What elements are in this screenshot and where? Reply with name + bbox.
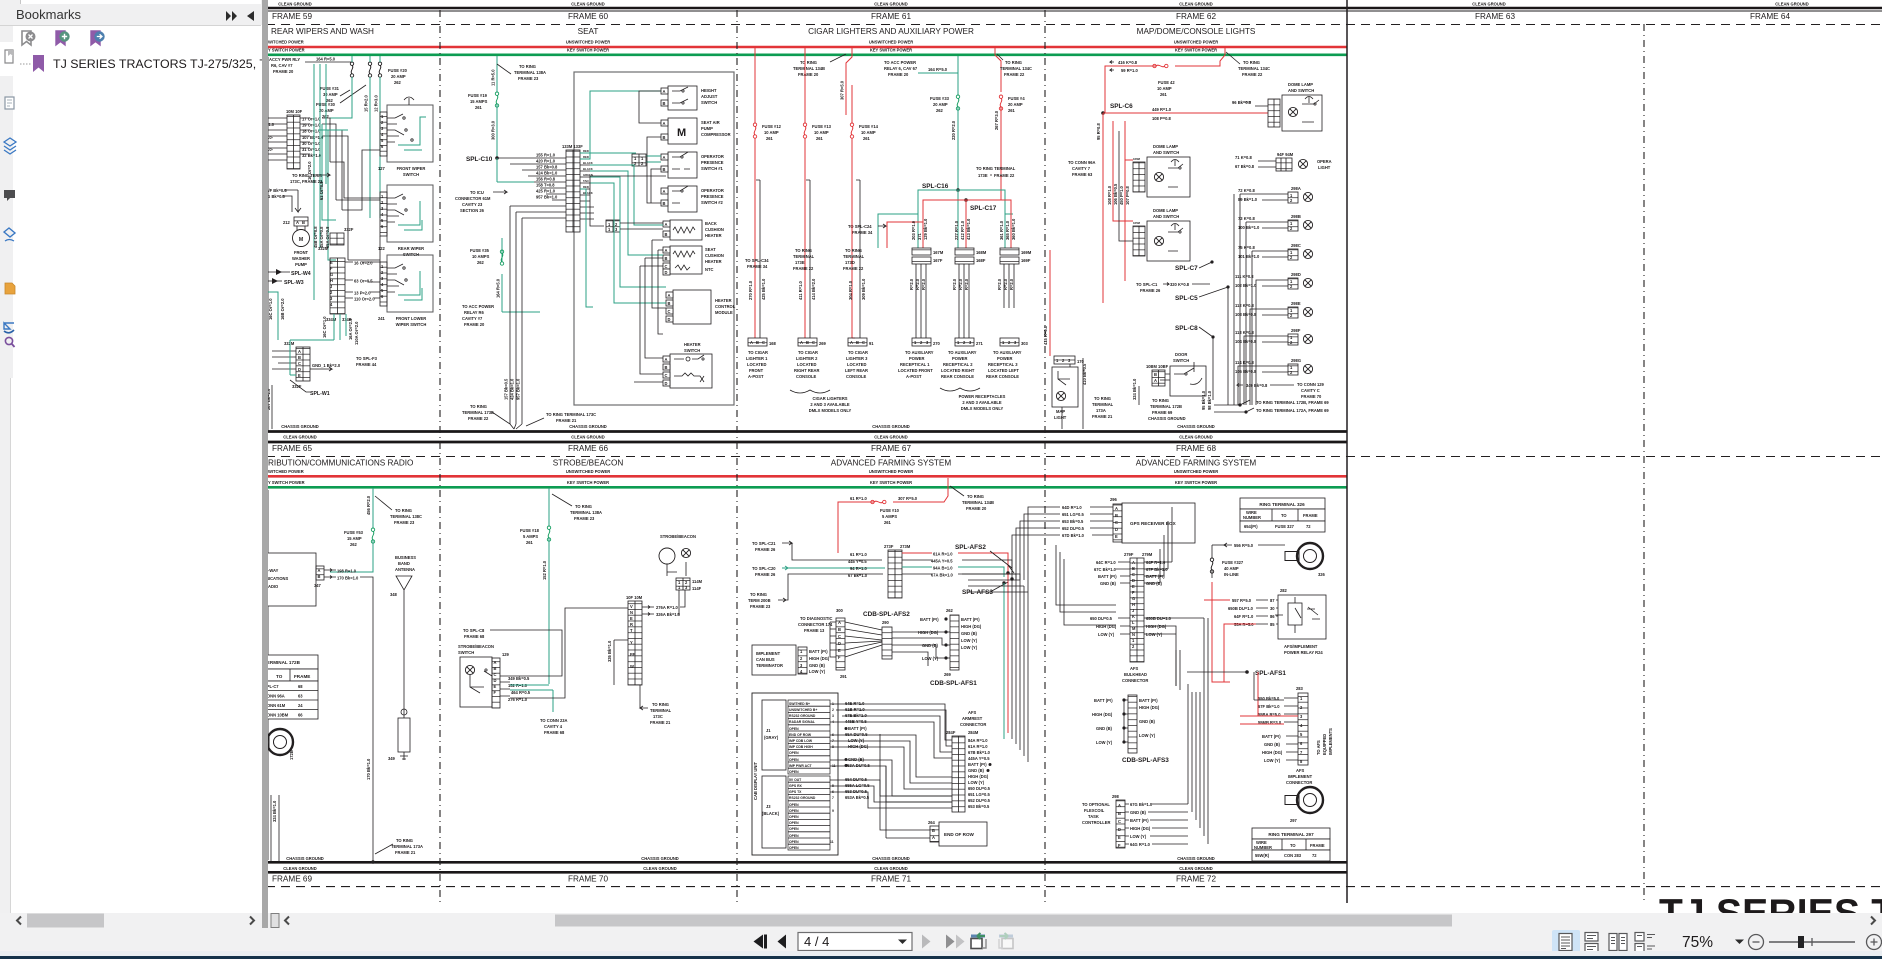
svg-text:652 DU=0.5: 652 DU=0.5 [968,798,991,803]
svg-text:RECEPTICAL 2: RECEPTICAL 2 [943,362,973,367]
svg-text:FRAME 21: FRAME 21 [556,418,577,423]
svg-text:R=2.0: R=2.0 [952,278,957,290]
wires out of 334F [345,262,353,298]
svg-text:957 Bk=1.0: 957 Bk=1.0 [536,195,558,200]
SPL-W1 [290,380,310,392]
svg-text:67G Bk=1.0: 67G Bk=1.0 [1130,802,1153,807]
svg-text:129 Bk=1.0: 129 Bk=1.0 [923,218,928,240]
svg-text:BUSINESS: BUSINESS [395,555,416,560]
svg-text:TO ICU: TO ICU [470,190,484,195]
svg-text:FUSE #13: FUSE #13 [812,124,832,129]
svg-text:R=2.0: R=2.0 [1009,278,1014,290]
svg-text:RIGHT REAR: RIGHT REAR [794,368,820,373]
svg-text:9: 9 [832,809,834,813]
svg-text:RS232 GROUND: RS232 GROUND [789,796,816,800]
svg-text:32 Bk=1.0: 32 Bk=1.0 [302,153,322,158]
svg-text:LOCATED: LOCATED [797,362,817,367]
svg-text:456 R=2.0: 456 R=2.0 [366,495,371,515]
chassis ground bus row 1 [266,430,1347,433]
red feed to dome lamp 1 [1103,112,1268,114]
vertical frame border 60/61 [736,10,738,903]
ground drop wires [510,206,566,424]
svg-text:C: C [298,361,301,366]
bookmark tree item [20,55,44,72]
svg-text:-WAY: -WAY [268,568,279,573]
svg-text:RED: RED [583,155,589,159]
svg-text:TERMINAL 172B: TERMINAL 172B [1150,404,1182,409]
front wiper switch U127 [387,105,433,162]
svg-text:LOW (Y): LOW (Y) [1264,758,1281,763]
svg-text:RELAY 6, CAV 67: RELAY 6, CAV 67 [884,66,918,71]
svg-text:A-POST: A-POST [906,374,922,379]
svg-text:FUSE #327: FUSE #327 [1222,560,1244,565]
svg-text:TO RING TERMINAL 172B, FRAME 6: TO RING TERMINAL 172B, FRAME 69 [1256,400,1329,405]
svg-text:D: D [665,381,668,386]
svg-text:10 AMP: 10 AMP [1157,86,1172,91]
svg-text:86: 86 [1270,614,1275,619]
svg-text:FRAME 23: FRAME 23 [394,520,415,525]
svg-text:170: 170 [1077,359,1085,364]
svg-text:133M 133F: 133M 133F [562,144,583,149]
clean ground bus row 2 bottom [266,871,1347,874]
svg-text:POWER: POWER [997,356,1013,361]
svg-text:167M: 167M [933,250,944,255]
svg-text:TO AFS: TO AFS [1316,740,1321,755]
svg-text:G: G [1132,596,1135,601]
FRAME59 [266,56,433,429]
svg-text:SPL-C17: SPL-C17 [970,205,997,212]
svg-text:ADIO: ADIO [268,584,279,589]
svg-text:KEY SWITCH POWER: KEY SWITCH POWER [870,48,912,53]
svg-text:A: A [494,660,497,665]
wire 164 R=5.0 [305,61,352,63]
ground drop wire 267 [271,385,273,429]
svg-text:365 R=1.0: 365 R=1.0 [1005,220,1010,240]
svg-text:284M: 284M [968,730,979,735]
svg-text:7: 7 [832,796,834,800]
svg-text:304 R=1.0: 304 R=1.0 [848,280,853,300]
svg-text:15 AMP: 15 AMP [347,536,362,541]
svg-text:64F R=1.0: 64F R=1.0 [1234,614,1254,619]
svg-text:CAVITY 7: CAVITY 7 [1072,166,1091,171]
svg-text:FRAME 23: FRAME 23 [750,604,771,609]
cigar lighter drops [755,138,855,338]
svg-text:B: B [318,574,321,579]
svg-text:CHASSIS GROUND: CHASSIS GROUND [1148,416,1186,421]
svg-text:BAND: BAND [398,561,410,566]
green supply drops left column [314,64,326,300]
svg-text:FRAME 22: FRAME 22 [1004,72,1025,77]
svg-text:FUSE 42: FUSE 42 [1158,80,1175,85]
svg-text:FRAME 59: FRAME 59 [272,12,312,21]
cigar lighter connector 269 [798,338,817,346]
svg-text:107 P=0.8: 107 P=0.8 [1125,185,1130,205]
svg-text:LOW (Y): LOW (Y) [1096,740,1113,745]
svg-text:413 Bk=1.0: 413 Bk=1.0 [966,218,971,240]
unswitched power red bus row 1 [266,46,1347,49]
svg-text:BATT (P!): BATT (P!) [848,726,867,731]
heater control module [673,290,711,324]
svg-text:LOW (Y): LOW (Y) [961,638,978,643]
svg-text:114F: 114F [692,586,702,591]
svg-text:326: 326 [1318,572,1326,577]
svg-text:425 Bk=1.0: 425 Bk=1.0 [761,278,766,300]
svg-text:(BLACK): (BLACK) [762,811,780,816]
svg-text:TO CONN 129: TO CONN 129 [1297,382,1324,387]
svg-text:262: 262 [936,108,944,113]
svg-text:HEATER: HEATER [705,259,722,264]
wires SPL-C10 to 133M [497,158,566,200]
lower switch contacts [387,264,404,292]
svg-text:SPL-C8: SPL-C8 [1175,325,1198,332]
bottom ground runs to right frames [1062,386,1139,429]
svg-text:LOW (Y): LOW (Y) [848,738,865,743]
svg-text:AND SWITCH: AND SWITCH [1153,150,1179,155]
svg-text:15 R=2.0: 15 R=2.0 [364,95,369,112]
svg-text:55W(R): 55W(R) [1255,853,1270,858]
svg-text:FUSE #12: FUSE #12 [762,124,782,129]
svg-text:SWITCH: SWITCH [403,172,419,177]
svg-text:Y SWITCH POWER: Y SWITCH POWER [268,48,305,53]
svg-text:CONNECTOR: CONNECTOR [1122,678,1148,683]
svg-text:RELAY R6: RELAY R6 [464,310,485,315]
svg-text:TO: TO [1281,513,1287,518]
connector 334M 334F [330,258,345,314]
svg-text:B: B [663,135,666,140]
destinations tab icon [4,323,14,329]
svg-text:HIGH (DG): HIGH (DG) [809,656,830,661]
svg-text:65A DU=0.5: 65A DU=0.5 [845,732,868,737]
svg-text:261: 261 [1160,92,1168,97]
svg-text:64G R=1.0: 64G R=1.0 [1130,842,1151,847]
svg-text:CONSOLE: CONSOLE [796,374,817,379]
svg-text:96 Bk=0.8: 96 Bk=0.8 [1232,100,1252,105]
svg-text:IMPLEMENT: IMPLEMENT [756,651,781,656]
svg-text:B: B [663,101,666,106]
svg-text:106 Bk=0.5: 106 Bk=0.5 [1113,183,1118,205]
svg-text:4 / 4: 4 / 4 [804,934,829,949]
svg-text:R=2.0: R=2.0 [1003,278,1008,290]
svg-text:72: 72 [1306,524,1311,529]
svg-text:LOCATED RIGHT: LOCATED RIGHT [941,368,975,373]
svg-text:FRAME 70: FRAME 70 [1301,394,1322,399]
svg-text:FRAME 68: FRAME 68 [1176,444,1216,453]
green acc power feed [918,72,958,74]
svg-text:ADVANCED FARMING SYSTEM: ADVANCED FARMING SYSTEM [1136,459,1257,468]
svg-text:B: B [665,256,668,261]
svg-text:CONNECTOR 61M: CONNECTOR 61M [455,196,491,201]
svg-text:TO AUXILIARY: TO AUXILIARY [905,350,934,355]
svg-text:MAP/DOME/CONSOLE LIGHTS: MAP/DOME/CONSOLE LIGHTS [1137,27,1256,36]
svg-text:W: W [630,664,634,669]
svg-text:212: 212 [283,220,291,225]
svg-text:262: 262 [477,260,485,265]
svg-text:CAVITY #7: CAVITY #7 [462,316,483,321]
svg-text:J: J [330,284,332,289]
continuous mode [1585,933,1598,953]
svg-text:2 AND 3 AVAILABLE: 2 AND 3 AVAILABLE [810,402,850,407]
svg-text:3: 3 [832,714,834,718]
svg-text:A: A [750,340,753,345]
svg-text:L/F Bk=0.8: L/F Bk=0.8 [266,188,287,193]
red feed with fuse 10 [893,478,948,502]
svg-text:CLEAN GROUND: CLEAN GROUND [874,435,907,440]
svg-text:411 R=1.0: 411 R=1.0 [798,280,803,300]
svg-text:71 K=0.8: 71 K=0.8 [1235,155,1252,160]
svg-text:IMP PWR ACT: IMP PWR ACT [789,764,813,768]
svg-text:CIGAR LIGHTERS: CIGAR LIGHTERS [812,396,847,401]
svg-text:FRONT: FRONT [294,250,309,255]
J3 pin cells [788,776,834,850]
svg-text:20 AMP: 20 AMP [391,74,406,79]
svg-text:GPS RX: GPS RX [789,784,803,788]
svg-text:IN-LINE: IN-LINE [1224,572,1239,577]
svg-text:R6, CAV #7: R6, CAV #7 [271,63,293,68]
antenna loading coil [398,718,410,752]
long bundle down [1007,573,1009,733]
svg-text:TO ACC POWER: TO ACC POWER [462,304,494,309]
svg-text:A: A [665,248,668,253]
svg-text:FRAME: FRAME [1303,513,1318,518]
separator [262,0,268,928]
continuous facing mode [1635,933,1655,953]
svg-text:HIGH (DG): HIGH (DG) [918,630,939,635]
FRAME65 [255,488,423,864]
red tap to ring terminal 134B [846,47,852,115]
first page button [754,935,764,949]
svg-text:267 R=3.0: 267 R=3.0 [994,110,999,130]
svg-text:FRAME 70: FRAME 70 [568,875,608,884]
svg-text:112 K=0.8: 112 K=0.8 [1235,303,1255,308]
svg-text:957 Bk=1.0: 957 Bk=1.0 [516,378,521,400]
svg-text:279M: 279M [1142,552,1153,557]
svg-text:31 Or=1.0: 31 Or=1.0 [302,147,321,152]
svg-text:652 DU=0.5: 652 DU=0.5 [1062,526,1085,531]
previous view button [971,933,986,949]
svg-text:D: D [298,367,301,372]
svg-text:FRAME 44: FRAME 44 [356,362,377,367]
svg-text:KEY SWITCH POWER: KEY SWITCH POWER [567,480,609,485]
svg-text:CLEAN GROUND: CLEAN GROUND [1179,435,1212,440]
svg-text:CDB-SPL-AFS3: CDB-SPL-AFS3 [1122,757,1169,764]
svg-text:TO CIGAR: TO CIGAR [748,350,768,355]
cigar lighter connector 168 [748,338,767,346]
page cut left edge line [267,57,269,860]
svg-text:168: 168 [769,341,777,346]
svg-text:CONNECTOR: CONNECTOR [1286,780,1312,785]
svg-text:55A Or=0.8: 55A Or=0.8 [325,226,330,248]
svg-text:TO DIAGNOSTIC: TO DIAGNOSTIC [800,616,832,621]
svg-text:320 K=0.8: 320 K=0.8 [1170,282,1190,287]
svg-text:POWER: POWER [952,356,968,361]
svg-text:261: 261 [766,136,774,141]
diode SPL-W4 [268,271,290,273]
svg-text:270: 270 [933,341,941,346]
svg-text:59 R=1.0: 59 R=1.0 [1121,68,1138,73]
svg-text:(GRAY): (GRAY) [764,735,779,740]
svg-text:LOW (Y): LOW (Y) [968,780,985,785]
svg-text:FRAME 69: FRAME 69 [272,875,312,884]
key switch power green bus row 1 [266,53,1347,56]
svg-text:424 Bk=1.0: 424 Bk=1.0 [536,171,558,176]
svg-text:282: 282 [1280,588,1288,593]
svg-text:BATT (P!): BATT (P!) [1262,734,1281,739]
fuse #19 [495,92,498,107]
svg-text:SEAT: SEAT [578,27,599,36]
svg-text:IMP CDB LOW: IMP CDB LOW [789,739,813,743]
svg-text:262: 262 [394,80,402,85]
svg-text:262: 262 [946,608,954,613]
svg-text:SPL-AFS2: SPL-AFS2 [955,544,986,551]
key power drop to fuse 18 [548,488,550,526]
svg-text:650B DU=1.0: 650B DU=1.0 [1146,616,1172,621]
svg-text:REAR WIPERS AND WASH: REAR WIPERS AND WASH [271,27,374,36]
svg-text:169F: 169F [1021,258,1031,263]
svg-text:LOCATED: LOCATED [847,362,867,367]
svg-text:CAVITY 4: CAVITY 4 [544,724,563,729]
svg-text:TO OPTIONAL: TO OPTIONAL [1082,802,1110,807]
ring terminal 172B [255,729,293,755]
frame top dashed border row 2 [266,456,1882,458]
svg-text:FUSE #10: FUSE #10 [880,508,900,513]
svg-text:A: A [663,121,666,126]
svg-text:173E: 173E [978,173,988,178]
FRAME67 [748,478,1028,855]
svg-text:TERMINAL 134C: TERMINAL 134C [1000,66,1032,71]
svg-text:FRAME 72: FRAME 72 [1176,875,1216,884]
svg-text:GND (B): GND (B) [1264,742,1281,747]
switch wire labels [500,682,510,696]
svg-text:SPL-C7: SPL-C7 [1175,265,1198,272]
svg-text:TO SPL-C20: TO SPL-C20 [752,566,776,571]
svg-text:D: D [838,641,841,646]
svg-text:TERMINAL: TERMINAL [1092,402,1114,407]
svg-text:FRAME 26: FRAME 26 [755,572,776,577]
svg-text:303: 303 [1021,341,1029,346]
svg-text:11 R=5.0: 11 R=5.0 [491,69,496,86]
svg-text:298F: 298F [1291,328,1301,333]
cab display unit [752,693,838,855]
svg-text:POWER RELAY R24: POWER RELAY R24 [1284,650,1323,655]
svg-text:TERMINAL 138C: TERMINAL 138C [390,514,422,519]
fuse #4 [999,95,1002,110]
svg-text:B: B [298,355,301,360]
fuse #20 [368,62,371,77]
svg-text:CLEAN GROUND: CLEAN GROUND [1472,2,1505,7]
svg-text:E: E [838,648,841,653]
svg-text:94F 94M: 94F 94M [1277,152,1294,157]
svg-text:PRESENCE: PRESENCE [701,194,724,199]
svg-text:CLEAN GROUND: CLEAN GROUND [874,866,907,871]
svg-text:FRAME 67: FRAME 67 [871,444,911,453]
svg-text:64C R=1.0: 64C R=1.0 [1096,560,1116,565]
svg-text:ANTENNA: ANTENNA [395,567,415,572]
svg-text:D: D [668,317,671,322]
svg-text:91: 91 [869,341,874,346]
svg-text:FRAME 21: FRAME 21 [395,850,416,855]
svg-text:R=2.0: R=2.0 [997,278,1002,290]
svg-text:DOME LAMP: DOME LAMP [1153,208,1178,213]
svg-text:LOCATED FRONT: LOCATED FRONT [898,368,933,373]
svg-text:BLACK: BLACK [583,191,593,195]
svg-text:157 Bk=0.8: 157 Bk=0.8 [536,165,558,170]
svg-text:173D: 173D [845,260,855,265]
svg-text:A: A [1115,506,1118,511]
svg-text:IMPLEMENT: IMPLEMENT [1288,774,1313,779]
console lamp rows 298A-298G [1238,186,1313,203]
svg-text:10M 10F: 10M 10F [286,109,303,114]
svg-text:RADAR SIGNAL: RADAR SIGNAL [789,720,815,724]
svg-text:LOW (Y): LOW (Y) [961,645,978,650]
svg-text:D: D [1118,827,1121,832]
svg-text:173E: 173E [795,260,805,265]
svg-text:2: 2 [832,708,834,712]
svg-text:347: 347 [314,583,322,588]
svg-text:B: B [665,232,668,237]
svg-text:416 K=0.8: 416 K=0.8 [1118,60,1138,65]
svg-text:173C, FRAME 21: 173C, FRAME 21 [290,179,323,184]
svg-text:BATT (P!): BATT (P!) [1139,698,1158,703]
svg-text:B: B [932,828,935,833]
key power tap wire 11 R=5.0 [496,56,498,92]
panel header [0,4,261,26]
J1 pin cells [788,700,836,774]
svg-text:GND (B): GND (B) [961,631,978,636]
svg-text:PUMP: PUMP [701,126,713,131]
svg-text:B: B [665,365,668,370]
harness runs to wiper switches [330,150,380,260]
svg-text:EQUIPPED: EQUIPPED [1322,734,1327,755]
svg-text:TO RING TERM: TO RING TERM [292,173,322,178]
svg-text:261: 261 [526,540,534,545]
svg-text:67 Bk=0.8: 67 Bk=0.8 [1235,164,1255,169]
svg-text:CUSHION: CUSHION [705,253,724,258]
svg-text:170 Bk=1.0: 170 Bk=1.0 [337,576,359,581]
svg-text:64E R=1.0: 64E R=1.0 [845,701,865,706]
svg-text:FRONT WIPER: FRONT WIPER [397,166,426,171]
svg-text:UNSWITCHED POWER: UNSWITCHED POWER [1174,469,1218,474]
svg-text:UNSWITCHED POWER: UNSWITCHED POWER [869,40,913,45]
svg-text:FRAME 23: FRAME 23 [574,516,595,521]
svg-text:261: 261 [884,520,892,525]
svg-text:TERMINAL 134B: TERMINAL 134B [793,66,825,71]
svg-text:371: 371 [917,232,922,240]
svg-text:30 Or=1.0: 30 Or=1.0 [302,141,321,146]
clean ground bus top [266,7,1882,10]
svg-text:DOME LAMP: DOME LAMP [1153,144,1178,149]
FRAME60 [455,56,736,429]
svg-text:164 R=5.0: 164 R=5.0 [316,57,336,62]
svg-text:TERMINAL 173A: TERMINAL 173A [391,844,423,849]
svg-text:AND SWITCH: AND SWITCH [1288,88,1314,93]
svg-text:CONNECTOR 174: CONNECTOR 174 [798,622,833,627]
wires 416/59 to splice [1103,66,1156,113]
svg-text:CHASSIS GROUND: CHASSIS GROUND [641,856,679,861]
svg-text:SWITCH: SWITCH [701,100,717,105]
svg-text:BLACK: BLACK [583,161,593,165]
svg-text:TO RING: TO RING [395,508,412,513]
svg-text:158 T=0.8: 158 T=0.8 [536,183,555,188]
svg-text:307 R=5.0: 307 R=5.0 [898,496,918,501]
splitter box [271,914,279,928]
svg-text:M: M [677,127,686,139]
svg-text:ARMREST: ARMREST [962,716,983,721]
power receptacles note [940,388,980,391]
svg-text:165M: 165M [1133,221,1141,225]
svg-text:64D R=1.0: 64D R=1.0 [1062,505,1082,510]
red tap from unswitched bus [1175,47,1225,66]
svg-text:IMP CDB HIGH: IMP CDB HIGH [789,745,813,749]
